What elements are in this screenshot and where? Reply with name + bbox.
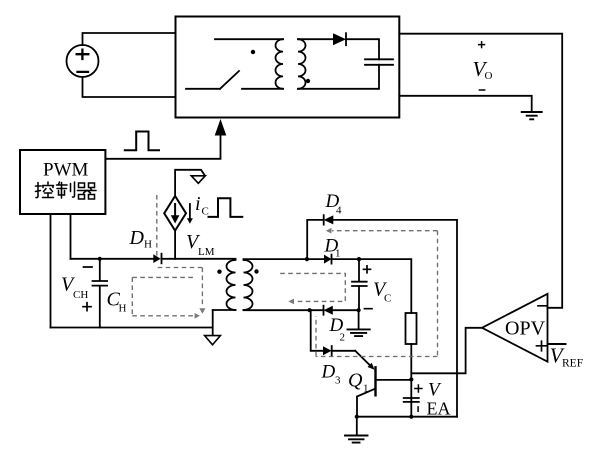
svg-text:O: O — [485, 70, 493, 82]
svg-text:i: i — [195, 193, 201, 215]
svg-text:PWM: PWM — [43, 160, 89, 181]
svg-text:LM: LM — [198, 246, 215, 258]
svg-text:H: H — [119, 303, 127, 315]
svg-text:4: 4 — [336, 205, 342, 217]
svg-text:C: C — [202, 206, 209, 218]
svg-text:H: H — [144, 239, 152, 251]
svg-text:1: 1 — [363, 383, 369, 395]
svg-text:REF: REF — [562, 358, 583, 370]
svg-text:OPV: OPV — [505, 318, 546, 340]
svg-text:3: 3 — [335, 375, 341, 387]
svg-text:Q: Q — [348, 370, 363, 392]
svg-text:EA: EA — [427, 399, 451, 419]
svg-text:CH: CH — [73, 289, 88, 301]
svg-text:2: 2 — [340, 332, 346, 344]
svg-text:C: C — [384, 293, 391, 305]
svg-text:D: D — [129, 227, 145, 249]
svg-text:1: 1 — [335, 248, 341, 260]
svg-text:D: D — [321, 362, 336, 383]
